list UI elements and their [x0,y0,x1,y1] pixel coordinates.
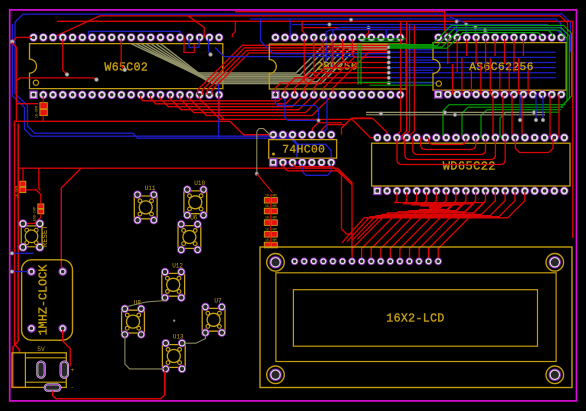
via t2 [328,23,331,26]
pin1 marker 74HC00 [272,153,275,156]
svg-text:+: + [71,367,75,374]
wire red data bus diagonals [198,45,388,95]
oscillator X1 1MHZ-CLOCK [22,260,73,340]
via k2 [443,111,446,114]
wire blue staircase AS [449,17,488,38]
wire olive U12-U8 [125,298,165,309]
button U13 [162,334,186,373]
svg-text:U6: U6 [190,215,198,222]
svg-text:ESD-CAP: ESD-CAP [34,207,38,221]
wire red bus W65C02 to logic [141,95,378,138]
wire red through R1 [42,95,44,121]
wire red staircase 28C256 [304,37,355,83]
ic U5 WD65C22 [372,134,570,195]
svg-text:U10: U10 [194,180,205,187]
wire blue pin18 down [209,37,211,54]
ic U2 28C256 [269,34,406,99]
wire red right of 74HC00 [342,118,373,135]
wire blue top rail [15,14,571,93]
ic U4 74HC00 [269,131,337,167]
svg-text:5V: 5V [37,346,45,353]
svg-text:U12: U12 [172,263,183,270]
wire blue pads-top rail [89,31,180,37]
wire blue bus AS6C62256 [391,47,557,83]
wire green wrap [390,25,572,107]
wire red upper mid rail [53,16,568,38]
wire red nested arcs WD65C22 [397,138,505,165]
wire red stub d [366,28,369,38]
via w4 [209,53,213,57]
wire red stubs 74HC00 [312,119,387,138]
via ne corner [560,36,563,39]
wire red long rail y168 [18,168,352,254]
wire blue left rail A [13,24,332,162]
pad holes overlay [21,36,566,379]
wire red fan 28C256 [275,52,387,95]
svg-text:1MHZ-CLOCK: 1MHZ-CLOCK [37,264,51,336]
via w1 [65,73,69,77]
via olive end [255,172,258,175]
via reset [10,252,13,255]
svg-text:W65C02: W65C02 [104,61,148,74]
wire red top rail [57,21,573,238]
wire blue gap pair [326,27,565,42]
wire red stubs AS6C62256 [448,37,528,94]
connector J1 5V [12,346,75,391]
svg-text:1K-OHM: 1K-OHM [16,186,20,198]
button U7 [202,298,226,337]
via top-left [10,40,14,44]
wire blue 28C256 to 74HC00 [324,95,327,135]
wire red left vertical B [13,124,25,388]
wire khaki address bus [131,44,388,84]
wire blue gap lines [215,19,390,57]
wire red hook [232,21,235,37]
wire blue gap vertical [218,84,220,138]
wire blue left rail B [15,94,297,159]
via column [387,46,390,85]
ic U1 W65C02 [30,34,224,99]
via t1 [349,18,352,21]
via t3 [367,26,370,29]
resistor R7 smd left [16,181,26,198]
wire red U13 down [164,369,166,395]
button U11 [134,185,158,224]
wire olive U7-U13 [182,333,206,344]
via k1 [379,112,382,115]
wire red C1 net [25,214,41,224]
wire blue stub c [385,30,387,38]
wire blue 28C256 pad2 down [285,95,316,121]
wire red from via to column [257,174,273,193]
svg-text:-: - [71,384,75,391]
wire red under 74HC00 A [283,162,352,184]
button U10 [184,180,208,219]
wire red y79 segment [16,78,96,81]
button U6 [178,215,202,254]
wire red small loop [184,37,194,52]
wire blue reset [12,252,34,254]
wire khaki mid bus [366,112,545,114]
resistor array R2-R6 [264,193,277,248]
wire red rail y27 [302,27,545,29]
wire red clock down [63,328,70,366]
wire red 5V bottom [53,368,165,399]
wire red y104 segment [16,103,38,105]
wire red pin4 down [63,37,67,74]
wire red stub b [302,21,304,37]
wire green 28C256 [358,39,433,85]
via w3 [95,78,99,82]
wire olive to column [257,129,272,174]
svg-text:WD65C22: WD65C22 [443,159,496,173]
via k4 [532,111,535,114]
wire red under 74HC00 B [293,162,352,234]
wire blue stub a [289,19,291,37]
wire blue 28C256 pad1 down [275,95,318,121]
svg-text:RESET: RESET [42,225,50,247]
wire blue loop under 74HC00 [302,162,331,175]
wire blue rail y19 [250,19,561,36]
wire red via to pin top-left [12,37,33,41]
button U8 [121,299,145,338]
via blue b1 [317,119,320,122]
svg-text:16X2-LCD: 16X2-LCD [386,313,444,326]
capacitor C1 smd [34,204,44,221]
wire blue verticals 28C256 [326,37,331,70]
wire red R7 net [23,168,41,204]
wire red pad20 down [219,95,224,120]
svg-text:U7: U7 [214,298,222,305]
wire red wd right arc [515,138,553,153]
wire red gap verticals [398,21,415,143]
via k3 [453,113,456,116]
svg-text:74HC00: 74HC00 [282,144,325,156]
svg-text:AS6C62256: AS6C62256 [469,62,534,74]
wire red-blue AS to WD [493,94,559,137]
button S1 RESET [19,220,50,252]
center dot [173,320,175,322]
ic U3 AS6C62256 [433,34,566,99]
wire red through column [270,195,272,247]
wire blue rail y24 [292,24,548,26]
via w2 [123,68,127,72]
module LCD1 16X2-LCD [260,247,572,388]
button U12 [161,263,185,302]
resistor R1 smd [36,103,48,119]
wire olive U8-U13 [125,335,166,369]
wire red rail y117 [235,12,448,38]
wire red long mid rail [15,120,231,122]
wire red rail descender [188,16,204,38]
wire red left vertical A [15,121,20,353]
wire red pin10 down [121,37,125,69]
wire green to WD65C22 [443,105,566,138]
wire red diag to clock [61,168,81,271]
via clock [10,270,13,273]
svg-text:U13: U13 [173,334,184,341]
wire blue small loop [189,37,199,47]
wire red to 74HC00 pad1 [230,121,273,134]
wire red left top vertical [12,43,17,122]
svg-text:1K-OHM: 1K-OHM [36,106,40,118]
wire blue clock [12,271,28,273]
svg-text:U11: U11 [145,185,156,192]
wire red fan to LCD [342,191,525,259]
